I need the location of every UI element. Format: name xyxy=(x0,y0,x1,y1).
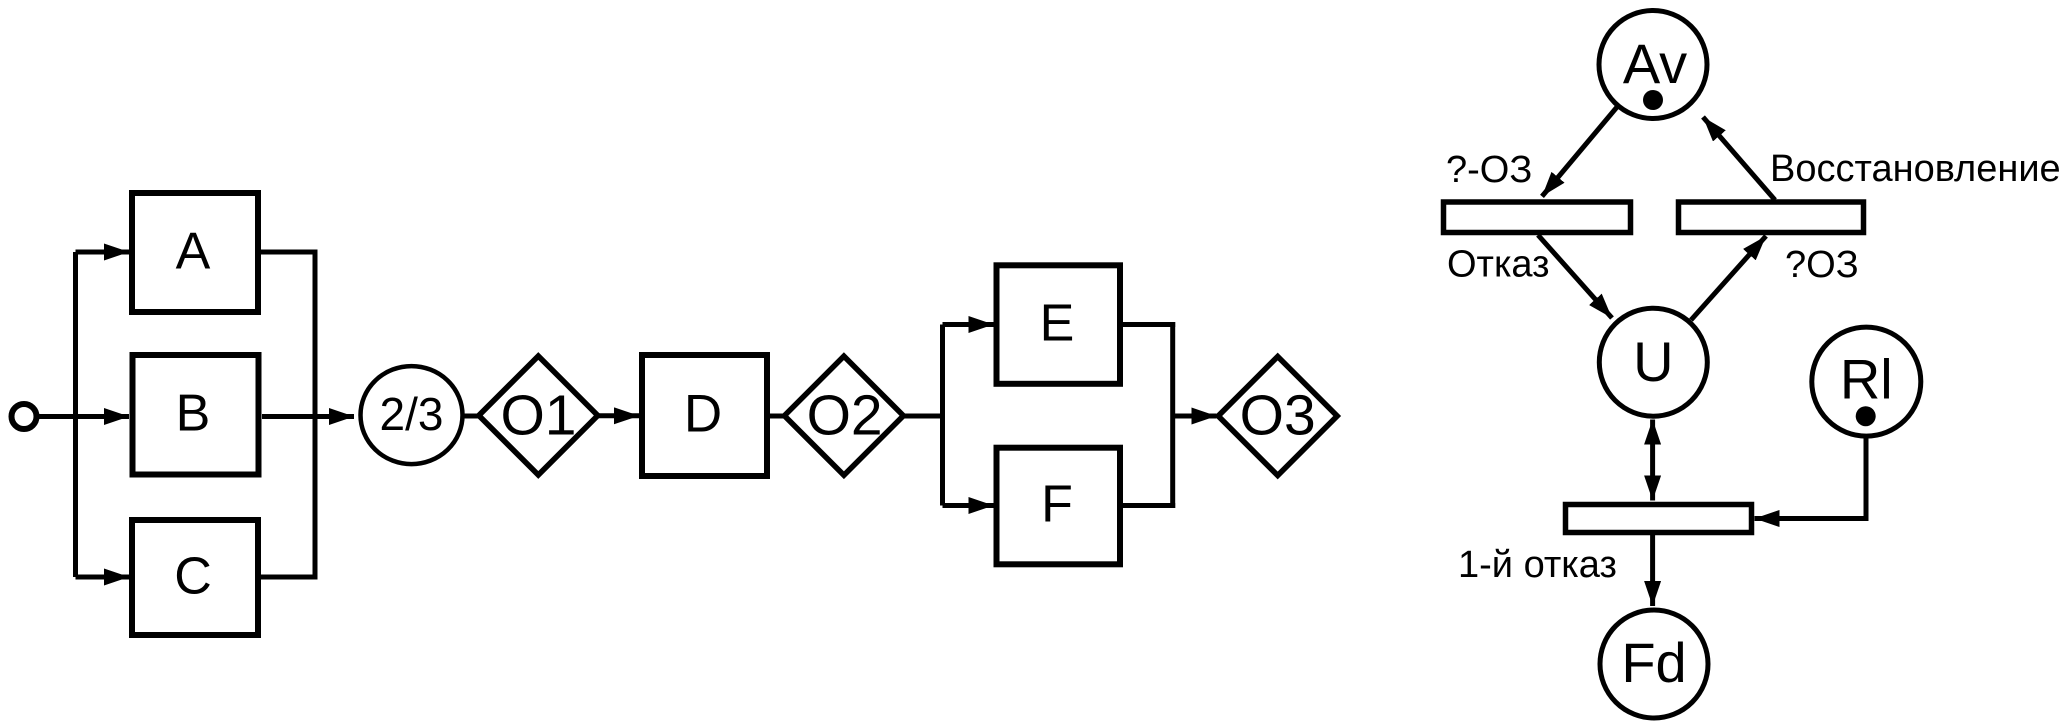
arc T3 to Fd xyxy=(1650,535,1655,606)
place Av xyxy=(1599,11,1707,119)
node O1 diamond xyxy=(479,356,598,475)
svg-text:Av: Av xyxy=(1623,32,1687,95)
block B xyxy=(133,355,259,475)
arrow into F xyxy=(943,503,994,508)
wire D to O2 xyxy=(770,414,786,419)
svg-text:F: F xyxy=(1041,476,1073,534)
node O2 diamond xyxy=(784,356,903,475)
transition T1 xyxy=(1444,202,1631,233)
svg-text:Восстановление: Восстановление xyxy=(1770,148,2061,190)
double arrow U T3 xyxy=(1650,420,1655,501)
wire A to join xyxy=(261,250,318,255)
arrow join2 to O3 xyxy=(1173,414,1217,419)
arrow into C xyxy=(76,575,130,580)
svg-text:О3: О3 xyxy=(1240,384,1316,448)
svg-text:A: A xyxy=(176,223,211,281)
block E xyxy=(997,265,1121,384)
join line left xyxy=(313,250,318,580)
svg-text:Fd: Fd xyxy=(1621,631,1686,694)
arc T2 to Av xyxy=(1703,117,1775,200)
transition T3 xyxy=(1566,505,1752,533)
wire C to join xyxy=(261,575,318,580)
arrow B to voter 2/3 xyxy=(262,414,354,419)
arc Rl to T3 xyxy=(1755,438,1867,519)
svg-text:О1: О1 xyxy=(500,384,576,448)
branch line right xyxy=(940,325,945,506)
block F xyxy=(997,448,1121,565)
token in Rl xyxy=(1856,406,1876,426)
place U xyxy=(1599,308,1707,416)
arc Av to T1 xyxy=(1542,107,1617,196)
svg-text:Отказ: Отказ xyxy=(1447,244,1550,286)
branch line left xyxy=(73,252,78,577)
block C xyxy=(132,520,258,635)
svg-text:О2: О2 xyxy=(807,384,883,448)
place Rl xyxy=(1812,327,1921,436)
token in Av xyxy=(1643,90,1663,110)
svg-text:U: U xyxy=(1633,330,1673,393)
arrow O1 to D xyxy=(598,413,639,418)
block A xyxy=(132,193,258,312)
svg-text:D: D xyxy=(684,385,722,444)
svg-text:?ОЗ: ?ОЗ xyxy=(1785,244,1859,286)
wire start to B with arrow xyxy=(37,414,130,419)
block D xyxy=(642,355,767,476)
join line right xyxy=(1170,322,1175,508)
svg-text:Rl: Rl xyxy=(1840,348,1893,411)
place Fd xyxy=(1600,610,1708,718)
arc U to T2 xyxy=(1691,236,1766,320)
svg-text:B: B xyxy=(176,385,211,443)
wire 2/3 to O1 xyxy=(464,414,481,419)
start node xyxy=(12,404,37,429)
arrow into A xyxy=(76,250,130,255)
svg-text:C: C xyxy=(174,548,212,606)
transition T2 xyxy=(1679,202,1864,233)
wire O2 to branch xyxy=(903,414,945,419)
svg-text:?-ОЗ: ?-ОЗ xyxy=(1446,149,1532,191)
node O3 diamond xyxy=(1218,357,1337,476)
svg-text:1-й отказ: 1-й отказ xyxy=(1458,544,1617,586)
wire E to join2 xyxy=(1123,322,1175,327)
arrow into E xyxy=(943,322,994,327)
node 2/3 xyxy=(361,366,463,464)
svg-text:2/3: 2/3 xyxy=(380,388,444,440)
arc T1 to U xyxy=(1538,235,1612,318)
svg-text:E: E xyxy=(1040,295,1075,353)
wire F to join2 xyxy=(1123,503,1175,508)
